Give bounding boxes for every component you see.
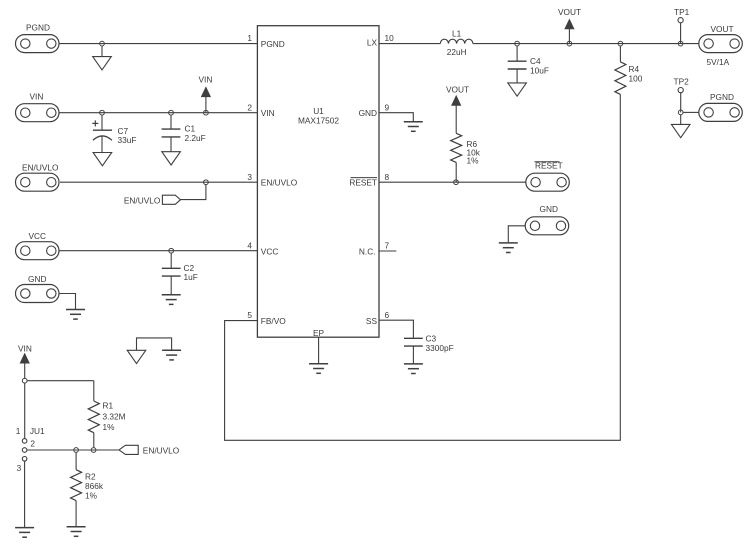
test point TP2: [674, 76, 690, 112]
svg-text:RESET: RESET: [349, 178, 377, 188]
svg-text:SS: SS: [366, 316, 378, 326]
pin 6 SS: [366, 310, 390, 326]
node R6/RESET junction: [454, 180, 459, 185]
svg-text:2: 2: [247, 102, 252, 112]
svg-text:R2: R2: [85, 471, 96, 481]
svg-text:EN/UVLO: EN/UVLO: [22, 162, 59, 172]
pin 5 FB/VO: [247, 310, 286, 326]
wire GND stub: [59, 294, 76, 310]
jumper JU1 pin 2: [22, 439, 35, 453]
svg-text:N.C.: N.C.: [359, 246, 376, 256]
wire VIN rail: [59, 112, 257, 114]
svg-text:1uF: 1uF: [184, 272, 198, 282]
svg-text:3: 3: [247, 172, 252, 182]
svg-text:PGND: PGND: [710, 92, 734, 102]
power VIN (bottom): [18, 344, 32, 379]
node R2 junction: [74, 448, 79, 453]
connector GND (right): [525, 204, 569, 235]
ground (pin 9 GND): [404, 122, 423, 132]
svg-text:7: 7: [385, 241, 390, 251]
svg-text:EN/UVLO: EN/UVLO: [261, 178, 298, 188]
resistor R4 100: [615, 46, 643, 94]
wire JU1 pin2 row: [27, 449, 119, 451]
ground (GND connector left): [66, 310, 85, 320]
svg-text:VCC: VCC: [261, 246, 279, 256]
svg-text:L1: L1: [452, 29, 462, 39]
wire VIN to JU1 pin1: [24, 383, 26, 438]
node VOUT arrow junction: [567, 41, 572, 46]
svg-text:VIN: VIN: [18, 344, 32, 354]
connector PGND (input): [16, 23, 60, 53]
wire GND pin stub: [379, 113, 413, 122]
node C2 junction: [169, 248, 174, 253]
power VOUT (R6): [446, 85, 469, 134]
svg-text:10: 10: [385, 33, 395, 43]
wire ground stub: [101, 46, 103, 56]
wire PGND rail: [59, 43, 257, 45]
wire NC stub: [378, 250, 396, 252]
svg-text:TP1: TP1: [674, 7, 690, 17]
node VIN arrow junction: [204, 110, 209, 115]
svg-text:1%: 1%: [103, 422, 116, 432]
svg-text:VOUT: VOUT: [711, 24, 734, 34]
svg-text:TP2: TP2: [674, 76, 690, 86]
pin 8 RESET: [349, 172, 389, 188]
wire ground tie: [137, 338, 172, 350]
node C1 junction: [169, 110, 174, 115]
wire EP stub: [318, 337, 320, 364]
wire EN/UVLO rail: [60, 181, 257, 183]
capacitor C1 2.2uF: [162, 115, 206, 151]
power VOUT (rail): [558, 7, 581, 44]
pin 2 VIN: [247, 102, 274, 118]
net label EN/UVLO (pin3): [124, 195, 181, 205]
connector EN/UVLO (input): [16, 162, 60, 191]
ground (TP2): [671, 124, 690, 137]
resistor R1 3.32M 1%: [88, 381, 125, 448]
test point TP1: [674, 7, 690, 44]
wire EN/UVLO flag stub: [181, 185, 206, 200]
node TP2 junction: [678, 110, 683, 115]
wire FB/VO feedback loop: [225, 94, 621, 440]
node R4 junction: [618, 41, 623, 46]
svg-text:5V/1A: 5V/1A: [707, 57, 730, 67]
wire VCC rail: [59, 250, 257, 252]
svg-text:PGND: PGND: [261, 39, 285, 49]
resistor R2 866k 1%: [71, 453, 104, 527]
ground (EP): [309, 364, 328, 374]
node TP1 junction: [678, 41, 683, 46]
ground (JU1 pin 3): [15, 528, 34, 538]
node EN/UVLO junction: [204, 180, 209, 185]
svg-text:1: 1: [16, 426, 21, 436]
jumper JU1 pin 1: [16, 426, 45, 443]
svg-text:8: 8: [385, 172, 390, 182]
connector RESET (output): [526, 161, 570, 192]
svg-text:3.32M: 3.32M: [103, 412, 126, 422]
svg-text:EN/UVLO: EN/UVLO: [143, 445, 180, 455]
svg-text:FB/VO: FB/VO: [261, 316, 286, 326]
svg-text:GND: GND: [540, 204, 558, 214]
svg-text:1: 1: [247, 33, 252, 43]
power VIN (top): [199, 75, 213, 113]
svg-text:LX: LX: [367, 37, 378, 47]
node VIN/R1 junction: [22, 378, 27, 383]
capacitor C2 1uF: [162, 253, 198, 294]
pin 10 LX: [367, 33, 394, 47]
op-amp U1 MAX17502 (IC body): [257, 26, 379, 338]
svg-text:3300pF: 3300pF: [426, 343, 454, 353]
wire SS stub: [379, 320, 413, 338]
net label EN/UVLO (divider): [119, 445, 180, 455]
svg-text:GND: GND: [28, 274, 46, 284]
pin 1 PGND: [247, 33, 284, 49]
jumper JU1 pin 3: [17, 457, 27, 473]
wire RESET rail: [379, 181, 526, 183]
ground (PGND rail): [93, 57, 112, 70]
ground (C3): [404, 364, 423, 374]
connector VOUT (output): [699, 24, 743, 67]
svg-text:MAX17502: MAX17502: [298, 116, 339, 126]
connector PGND (output): [699, 92, 743, 121]
node R1 bottom junction: [91, 448, 96, 453]
connector VCC (input): [16, 231, 60, 260]
node C7 junction: [100, 110, 105, 115]
svg-text:R1: R1: [103, 401, 114, 411]
pin 9 GND: [359, 102, 390, 118]
svg-text:EP: EP: [313, 328, 325, 338]
ground (C4): [508, 83, 527, 96]
capacitor C7 33uF (polarized): [92, 115, 136, 152]
node PGND/ground junction: [100, 41, 105, 46]
svg-text:22uH: 22uH: [447, 47, 467, 57]
svg-text:2: 2: [30, 439, 35, 449]
pin 3 EN/UVLO: [247, 172, 297, 188]
resistor R6 10k 1%: [451, 133, 481, 182]
wire TP2 to PGND connector: [683, 111, 699, 113]
wire JU1 pin3 to ground: [24, 461, 26, 527]
svg-text:100: 100: [629, 73, 643, 83]
svg-text:U1: U1: [313, 106, 324, 116]
pin 4 VCC: [247, 241, 278, 257]
svg-text:1%: 1%: [467, 156, 480, 166]
ground (C7): [93, 153, 112, 166]
connector VIN (input): [16, 92, 60, 122]
svg-text:5: 5: [247, 310, 252, 320]
svg-text:1%: 1%: [85, 490, 98, 500]
svg-text:10uF: 10uF: [530, 65, 549, 75]
svg-text:VIN: VIN: [261, 108, 275, 118]
capacitor C4 10uF: [508, 46, 549, 83]
svg-text:GND: GND: [359, 108, 377, 118]
ground (R2): [67, 527, 86, 537]
svg-text:866k: 866k: [85, 481, 104, 491]
svg-text:9: 9: [385, 102, 390, 112]
svg-text:VOUT: VOUT: [446, 85, 469, 95]
connector GND (left): [16, 274, 60, 303]
inductor L1 22uH: [440, 29, 473, 58]
ground tie (AGND): [162, 350, 181, 360]
svg-text:4: 4: [247, 241, 252, 251]
svg-text:2.2uF: 2.2uF: [185, 133, 206, 143]
capacitor C3 3300pF: [404, 334, 454, 364]
svg-text:6: 6: [385, 310, 390, 320]
svg-text:3: 3: [17, 463, 22, 473]
svg-text:PGND: PGND: [26, 23, 50, 33]
ground (GND connector right): [499, 243, 518, 253]
svg-text:VCC: VCC: [29, 231, 47, 241]
ground (C2): [162, 295, 181, 305]
svg-text:JU1: JU1: [30, 426, 45, 436]
svg-text:VOUT: VOUT: [558, 7, 581, 17]
pin 7 N.C.: [359, 241, 390, 257]
wire GND right stub: [508, 226, 525, 243]
svg-text:33uF: 33uF: [118, 135, 137, 145]
wire VIN junction to R1: [27, 380, 94, 382]
svg-text:EN/UVLO: EN/UVLO: [124, 195, 161, 205]
wire VOUT rail: [473, 43, 699, 45]
svg-text:VIN: VIN: [199, 75, 213, 85]
ground (C1): [162, 152, 181, 165]
node C4 junction: [515, 41, 520, 46]
ground tie (PGND): [127, 350, 146, 363]
svg-text:VIN: VIN: [30, 92, 44, 102]
wire TP2 ground stub: [680, 115, 682, 124]
wire LX to L1: [379, 43, 440, 45]
